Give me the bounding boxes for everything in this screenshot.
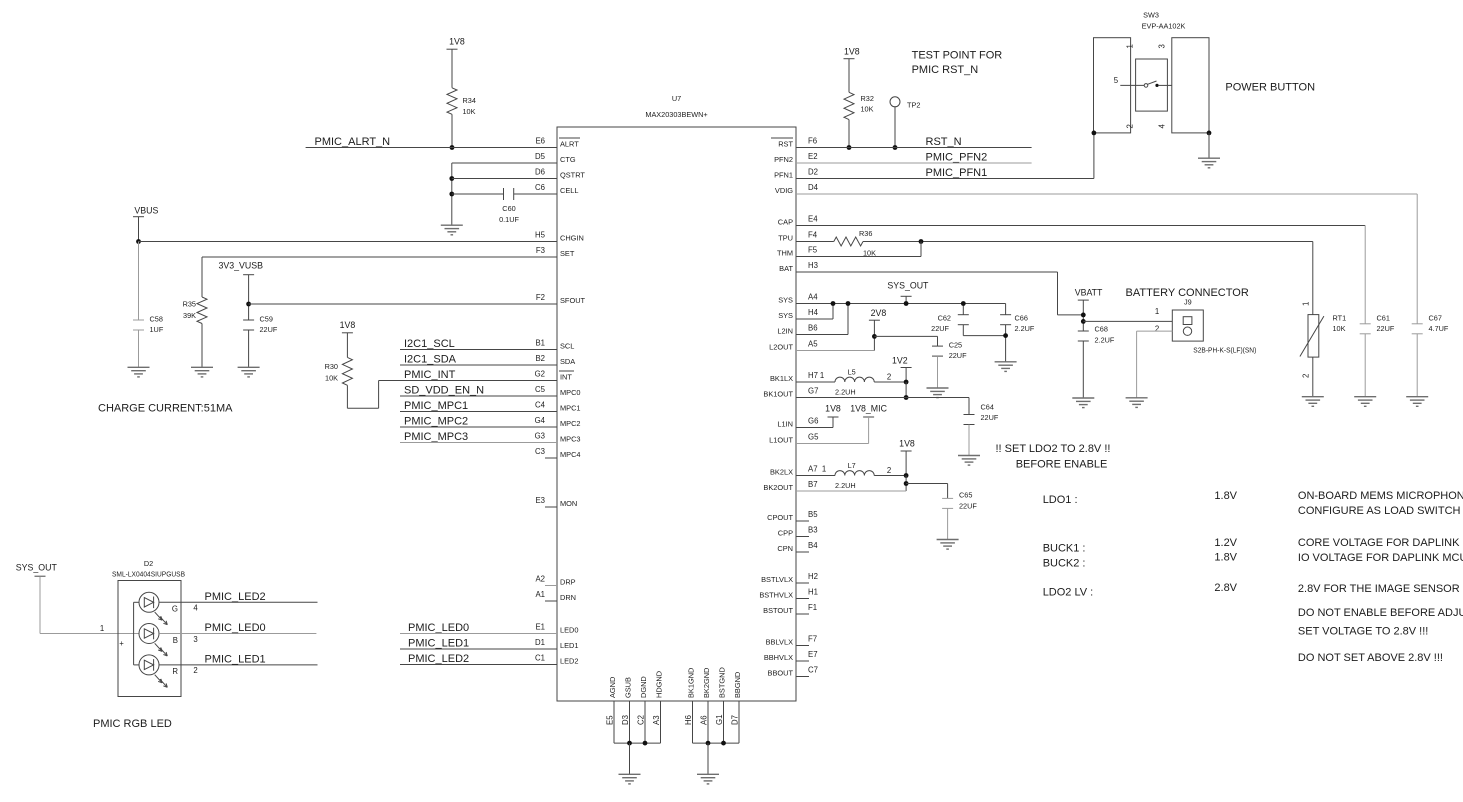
ground C67 — [1406, 397, 1428, 407]
ground CTG/QSTRT/CELL — [441, 225, 463, 235]
wire QSTRT pin D6 — [452, 178, 557, 180]
capacitor C25 22UF — [932, 341, 967, 361]
capacitor C60 0.1UF — [499, 188, 519, 224]
svg-text:A5: A5 — [808, 340, 818, 349]
svg-text:C6: C6 — [535, 183, 545, 192]
svg-text:B4: B4 — [808, 541, 818, 550]
svg-text:1: 1 — [1126, 44, 1135, 48]
svg-text:!! SET LDO2 TO 2.8V !!: !! SET LDO2 TO 2.8V !! — [996, 443, 1111, 455]
pin G2 INT (left) — [535, 370, 574, 382]
pin B5 CPOUT (right) — [767, 510, 818, 522]
ground C65 — [937, 540, 959, 550]
wire net RST_N pin F6 — [796, 147, 1032, 149]
ground C61 — [1354, 397, 1376, 407]
svg-text:BK1GND: BK1GND — [687, 668, 696, 698]
svg-text:C66: C66 — [1015, 314, 1028, 323]
svg-text:3V3_VUSB: 3V3_VUSB — [218, 261, 263, 271]
pin label R / 2 — [172, 666, 197, 676]
svg-text:H7: H7 — [808, 371, 818, 380]
svg-text:2: 2 — [887, 466, 891, 475]
pin F3 SET (left) — [536, 246, 575, 258]
svg-text:G3: G3 — [535, 432, 545, 441]
svg-text:C65: C65 — [959, 491, 972, 500]
switch SW3 EVP-AA102K power button — [1094, 11, 1210, 133]
svg-text:CHARGE CURRENT:51MA: CHARGE CURRENT:51MA — [98, 403, 233, 415]
svg-text:G5: G5 — [808, 433, 819, 442]
svg-text:C3: C3 — [535, 447, 545, 456]
svg-text:1V8: 1V8 — [449, 37, 465, 47]
svg-text:C58: C58 — [150, 315, 163, 324]
svg-text:4: 4 — [1158, 124, 1167, 129]
svg-text:PMIC_ALRT_N: PMIC_ALRT_N — [315, 136, 391, 148]
svg-text:2: 2 — [1155, 325, 1159, 334]
wire bottom AGND group bus — [614, 741, 661, 775]
wire BK2LX pin A7 to L7 — [796, 475, 835, 477]
svg-text:POWER BUTTON: POWER BUTTON — [1225, 82, 1315, 94]
pin D4 VDIG (right) — [775, 183, 819, 195]
svg-text:1V8: 1V8 — [899, 439, 915, 449]
svg-text:R: R — [172, 667, 178, 676]
svg-text:SET VOLTAGE TO 2.8V !!!: SET VOLTAGE TO 2.8V !!! — [1298, 626, 1428, 638]
svg-text:DRP: DRP — [560, 578, 576, 587]
node junction TP2/RST — [893, 145, 898, 150]
wire SFOUT net to pin F2 — [249, 303, 557, 305]
svg-text:E5: E5 — [606, 715, 615, 725]
capacitor C58 1UF — [133, 315, 164, 335]
svg-text:BSTGND: BSTGND — [718, 667, 727, 698]
svg-text:G6: G6 — [808, 417, 818, 426]
svg-text:C59: C59 — [260, 315, 273, 324]
capacitor C62 22UF — [931, 304, 969, 334]
resistor R36 10K — [834, 229, 876, 258]
capacitor C61 22UF — [1360, 314, 1395, 334]
svg-text:BBGND: BBGND — [733, 672, 742, 698]
wire C67 to ground — [1416, 334, 1418, 397]
wire VBATT down to C68 — [1082, 300, 1084, 331]
node junction SYS/SYS_OUT — [904, 301, 909, 306]
node junction SW3 pin2 — [1092, 131, 1097, 136]
svg-text:22UF: 22UF — [931, 324, 949, 333]
svg-text:2.2UF: 2.2UF — [1015, 324, 1035, 333]
node junction SYS/H4 — [831, 301, 836, 306]
node junction C65 tap — [904, 481, 909, 486]
wire L2OUT pin A5 to 2V8 — [796, 320, 874, 350]
svg-text:CPOUT: CPOUT — [767, 513, 793, 522]
svg-text:BK2OUT: BK2OUT — [763, 483, 793, 492]
IC U7 MAX20303BEWN+ body — [557, 94, 796, 701]
pin A7 BK2LX (right) — [770, 465, 818, 477]
wire net I2C1_SDA — [400, 364, 557, 366]
svg-text:B7: B7 — [808, 480, 818, 489]
ground J9 — [1126, 398, 1148, 408]
svg-text:10K: 10K — [1333, 324, 1346, 333]
svg-text:C1: C1 — [535, 654, 545, 663]
wire SYS_OUT to LED pin 1 — [40, 576, 140, 633]
svg-text:0.1UF: 0.1UF — [499, 215, 519, 224]
pin A5 L2OUT (right) — [769, 340, 818, 352]
wire 3V3_VUSB down — [248, 275, 250, 320]
pin B6 L2IN (right) — [777, 324, 817, 336]
wire R35 to ground — [201, 324, 203, 368]
pin D6 QSTRT (left) — [535, 168, 585, 180]
svg-text:BK2LX: BK2LX — [770, 468, 793, 477]
wire C59 to ground — [248, 330, 250, 367]
svg-text:PMIC_INT: PMIC_INT — [404, 369, 456, 381]
svg-text:F2: F2 — [536, 293, 545, 302]
wire R34 to ALRT net — [451, 114, 453, 147]
svg-text:C60: C60 — [502, 204, 515, 213]
text BUCK1 row — [1043, 537, 1463, 555]
wire 1V8 to R32 — [848, 59, 850, 93]
svg-text:A4: A4 — [808, 293, 818, 302]
wire net PMIC_PFN2 pin E2 — [796, 162, 1032, 164]
wire SW3 pin4 to ground — [1208, 133, 1210, 158]
pin B4 CPN (right) — [777, 541, 818, 553]
wire VBUS down — [138, 217, 140, 242]
svg-text:LDO2 LV :: LDO2 LV : — [1043, 587, 1094, 599]
svg-text:1: 1 — [820, 371, 824, 380]
power 1V8 (BK2) — [899, 439, 915, 476]
svg-text:C67: C67 — [1429, 314, 1442, 323]
svg-text:MPC3: MPC3 — [560, 435, 581, 444]
capacitor C67 4.7UF — [1412, 314, 1449, 334]
svg-text:B6: B6 — [808, 324, 818, 333]
pin E4 CAP (right) — [778, 215, 818, 227]
node junction R34/ALRT — [450, 145, 455, 150]
text TEST POINT FOR PMIC RST_N — [912, 49, 1003, 76]
svg-text:SML-LX0404SIUPGUSB: SML-LX0404SIUPGUSB — [112, 570, 185, 579]
svg-text:TPU: TPU — [778, 234, 793, 243]
wire RT1 to ground — [1312, 357, 1314, 397]
svg-text:C68: C68 — [1095, 325, 1108, 334]
svg-text:GSUB: GSUB — [624, 677, 633, 698]
wire net PMIC_INT — [379, 380, 557, 382]
svg-text:E4: E4 — [808, 215, 818, 224]
svg-text:SD_VDD_EN_N: SD_VDD_EN_N — [404, 385, 484, 397]
svg-text:VDIG: VDIG — [775, 186, 793, 195]
svg-text:QSTRT: QSTRT — [560, 171, 585, 180]
svg-text:F6: F6 — [808, 137, 817, 146]
svg-text:4: 4 — [193, 604, 198, 613]
svg-text:DO NOT SET ABOVE 2.8V !!!: DO NOT SET ABOVE 2.8V !!! — [1298, 652, 1443, 664]
svg-text:SCL: SCL — [560, 342, 574, 351]
pin G6 L1IN (right) — [777, 417, 818, 429]
svg-text:C25: C25 — [949, 341, 962, 350]
capacitor C59 22UF — [243, 315, 278, 335]
pin G3 MPC3 (left) — [535, 432, 581, 444]
ground C59 — [238, 367, 260, 377]
LED element red (pin 2 R) — [139, 655, 167, 687]
svg-text:BK1LX: BK1LX — [770, 374, 793, 383]
text SET LDO2 warning — [996, 443, 1111, 471]
wire LED G cathode to net PMIC_LED2 — [159, 601, 317, 603]
pin G7 BK1OUT (right) — [763, 387, 818, 399]
ground C58 — [128, 367, 150, 377]
thermistor RT1 10K — [1300, 242, 1346, 379]
pin F5 THM (right) — [777, 246, 818, 258]
svg-text:DGND: DGND — [639, 676, 648, 698]
svg-text:10K: 10K — [325, 374, 338, 383]
pin C4 MPC1 (left) — [535, 401, 581, 413]
resistor R35 39K — [183, 297, 207, 324]
svg-text:BUCK1 :: BUCK1 : — [1043, 543, 1086, 555]
svg-text:R32: R32 — [861, 94, 874, 103]
node junction VBATT/BAT — [1081, 313, 1086, 318]
node junction R32/RST — [847, 145, 852, 150]
svg-text:SYS: SYS — [778, 296, 793, 305]
power flag SYS_OUT (LED) — [16, 563, 58, 577]
wire BAT pin H3 to VBATT — [796, 272, 1083, 315]
svg-text:1.8V: 1.8V — [1214, 490, 1237, 502]
pin E6 ALRT (left) — [535, 137, 580, 149]
svg-text:F7: F7 — [808, 635, 817, 644]
node junction SYS/L2IN — [846, 301, 851, 306]
svg-text:D4: D4 — [808, 183, 819, 192]
svg-text:PMIC_LED1: PMIC_LED1 — [205, 654, 266, 666]
svg-text:PMIC_LED0: PMIC_LED0 — [205, 622, 266, 634]
power 2V8 — [869, 308, 886, 320]
svg-text:PMIC_MPC1: PMIC_MPC1 — [404, 400, 468, 412]
svg-text:VBATT: VBATT — [1075, 288, 1103, 298]
svg-text:PMIC_PFN2: PMIC_PFN2 — [926, 152, 988, 164]
svg-text:MON: MON — [560, 499, 577, 508]
wire VBATT to J9 pin 1 — [1083, 320, 1172, 322]
svg-text:AGND: AGND — [608, 677, 617, 698]
svg-text:E2: E2 — [808, 152, 818, 161]
wire net PMIC_ALRT_N to pin E6 — [306, 147, 557, 149]
svg-text:C2: C2 — [637, 715, 646, 725]
wire R36 to RT1 — [863, 241, 1313, 243]
wire net PMIC_MPC2 — [400, 426, 557, 428]
svg-text:L1OUT: L1OUT — [769, 436, 793, 445]
svg-text:B2: B2 — [535, 354, 545, 363]
svg-text:BK1OUT: BK1OUT — [763, 390, 793, 399]
svg-text:CORE VOLTAGE FOR DAPLINK MCU: CORE VOLTAGE FOR DAPLINK MCU — [1298, 537, 1463, 549]
svg-text:PMIC_LED2: PMIC_LED2 — [205, 591, 266, 603]
svg-text:SFOUT: SFOUT — [560, 296, 586, 305]
wire BK2LX to BK2OUT — [905, 476, 907, 492]
text LDO2 LV row — [1043, 582, 1460, 599]
svg-text:B3: B3 — [808, 526, 818, 535]
wire C64 to ground — [968, 425, 970, 456]
svg-text:PMIC_MPC3: PMIC_MPC3 — [404, 431, 468, 443]
svg-text:E3: E3 — [535, 496, 545, 505]
svg-text:THM: THM — [777, 249, 793, 258]
text LDO1 row — [1043, 490, 1463, 517]
svg-text:2: 2 — [1302, 374, 1311, 378]
wire L7 to 1V8 — [874, 475, 906, 477]
pin F2 SFOUT (left) — [536, 293, 586, 305]
svg-text:CTG: CTG — [560, 155, 576, 164]
wire VDIG net pin D4 to C67 — [796, 194, 1417, 324]
wire C62 bottom — [963, 325, 1005, 336]
svg-text:G7: G7 — [808, 387, 818, 396]
svg-text:2: 2 — [887, 373, 891, 382]
wire TP2 to RST net — [894, 107, 896, 148]
ground R35 — [191, 367, 213, 377]
wire BK1LX pin H7 to L5 — [796, 381, 835, 383]
wire net PMIC_MPC1 — [400, 411, 557, 413]
pin E2 PFN2 (right) — [774, 152, 817, 164]
svg-text:L2OUT: L2OUT — [769, 343, 793, 352]
svg-text:RT1: RT1 — [1333, 314, 1347, 323]
wire BK2OUT pin B7 — [796, 490, 906, 492]
svg-text:BEFORE ENABLE: BEFORE ENABLE — [1016, 459, 1108, 471]
node junction BK1LX/1V2 — [904, 380, 909, 385]
wire SYS net pin A4 — [796, 303, 1006, 305]
wire LED R cathode to net PMIC_LED1 — [159, 664, 317, 666]
svg-text:L2IN: L2IN — [777, 327, 793, 336]
svg-text:CONFIGURE AS LOAD SWITCH: CONFIGURE AS LOAD SWITCH — [1298, 505, 1461, 517]
node junction SYS/C62 — [961, 301, 966, 306]
svg-text:D2: D2 — [808, 168, 818, 177]
power 1V8_MIC — [850, 404, 887, 418]
svg-text:D6: D6 — [535, 168, 545, 177]
svg-text:ON-BOARD MEMS MICROPHONE: ON-BOARD MEMS MICROPHONE — [1298, 490, 1463, 502]
text BUCK2 row — [1043, 552, 1463, 570]
ground C25 — [927, 388, 949, 398]
node junction CELL — [449, 192, 454, 197]
power 1V8 (L1IN) — [825, 404, 841, 418]
svg-text:D5: D5 — [535, 152, 546, 161]
pin A3 HDGND (bottom) — [652, 671, 664, 743]
svg-text:PMIC_LED1: PMIC_LED1 — [408, 638, 469, 650]
svg-text:PFN1: PFN1 — [774, 171, 793, 180]
node junction BK2LX/1V8 — [904, 473, 909, 478]
svg-text:C62: C62 — [938, 314, 951, 323]
svg-text:PMIC RGB LED: PMIC RGB LED — [93, 718, 172, 730]
svg-text:BSTLVLX: BSTLVLX — [761, 575, 793, 584]
svg-text:MAX20303BEWN+: MAX20303BEWN+ — [645, 110, 707, 119]
pin A6 BK2GND (bottom) — [700, 668, 712, 744]
wire LED anode bus — [134, 602, 140, 665]
svg-text:PFN2: PFN2 — [774, 155, 793, 164]
svg-text:G2: G2 — [535, 370, 545, 379]
svg-text:1UF: 1UF — [150, 325, 164, 334]
pin H2 BSTLVLX (right) — [761, 572, 818, 584]
pin E5 AGND (bottom) — [606, 677, 618, 743]
svg-text:F3: F3 — [536, 246, 545, 255]
wire C61 to ground — [1364, 334, 1366, 397]
power 1V8 (above R30) — [340, 320, 356, 333]
svg-text:LDO1 :: LDO1 : — [1043, 494, 1078, 506]
svg-text:2V8: 2V8 — [871, 308, 887, 318]
pin H6 BK1GND (bottom) — [684, 668, 696, 744]
wire R30 to INT net — [347, 381, 378, 409]
svg-text:LED1: LED1 — [560, 641, 579, 650]
svg-text:2.2UF: 2.2UF — [1095, 336, 1115, 345]
wire CTG pin D5 — [452, 163, 557, 225]
svg-text:MPC0: MPC0 — [560, 388, 581, 397]
svg-text:H5: H5 — [535, 231, 546, 240]
pin H7 BK1LX (right) — [770, 371, 818, 383]
svg-text:R35: R35 — [183, 300, 196, 309]
svg-text:1V8: 1V8 — [340, 320, 356, 330]
svg-text:CELL: CELL — [560, 186, 579, 195]
pin C5 MPC0 (left) — [535, 385, 581, 397]
text DO NOT ENABLE warning — [1298, 607, 1463, 638]
svg-text:1V8: 1V8 — [844, 47, 860, 57]
svg-text:H2: H2 — [808, 572, 818, 581]
wire L5 to 1V2 — [874, 381, 906, 383]
wire R32 to RST net — [848, 120, 850, 148]
svg-text:A6: A6 — [700, 715, 709, 725]
svg-text:ALRT: ALRT — [560, 140, 579, 149]
ground C64 — [958, 456, 980, 466]
inductor L5 2.2UH — [820, 368, 891, 397]
svg-text:L7: L7 — [848, 461, 856, 470]
svg-text:VBUS: VBUS — [134, 206, 158, 216]
pin C1 LED2 (left) — [535, 654, 578, 666]
wire SYS pin H4 joins — [796, 304, 833, 320]
test point TP2 — [890, 97, 920, 110]
wire CELL to C60 — [452, 193, 504, 195]
svg-text:TP2: TP2 — [907, 101, 920, 110]
power VBUS — [133, 206, 159, 217]
svg-text:HDGND: HDGND — [655, 671, 664, 698]
svg-text:1V8_MIC: 1V8_MIC — [850, 404, 887, 414]
ground RT1 — [1302, 397, 1324, 407]
ground C62/C66 — [995, 362, 1017, 372]
svg-text:EVP-AA102K: EVP-AA102K — [1142, 22, 1186, 31]
svg-text:D7: D7 — [731, 715, 740, 725]
svg-text:BSTOUT: BSTOUT — [763, 606, 793, 615]
svg-text:F1: F1 — [808, 603, 817, 612]
pin E1 LED0 (left) — [535, 623, 578, 635]
pin A4 SYS (right) — [778, 293, 818, 305]
svg-text:+: + — [119, 639, 124, 648]
wire CHGIN net to pin H5 — [139, 241, 558, 243]
power 3V3_VUSB — [218, 261, 263, 275]
wire net PMIC_PFN1 pin D2 — [796, 133, 1094, 179]
wire C68 to ground — [1082, 341, 1084, 398]
svg-text:C5: C5 — [535, 385, 546, 394]
node junction SFOUT/3V3_VUSB — [246, 302, 251, 307]
node junction BK1OUT — [904, 395, 909, 400]
svg-text:1V8: 1V8 — [825, 404, 841, 414]
resistor R30 10K — [325, 357, 353, 385]
wire 1V8 to R34 — [451, 49, 453, 88]
pin A1 DRN (left) — [535, 590, 576, 602]
svg-text:1V2: 1V2 — [892, 356, 908, 366]
svg-text:1: 1 — [1155, 307, 1159, 316]
ground SW3 — [1198, 158, 1220, 168]
svg-text:2: 2 — [193, 666, 197, 675]
wire J9 pin 2 to ground — [1137, 331, 1173, 398]
wire VBUS to C58 — [138, 242, 140, 321]
svg-text:1: 1 — [1302, 302, 1311, 306]
wire net PMIC_LED1 to pin D1 — [400, 648, 557, 650]
svg-text:SW3: SW3 — [1143, 11, 1159, 20]
capacitor C64 22UF — [964, 403, 999, 425]
svg-text:U7: U7 — [672, 94, 681, 103]
pin F6 RST (right) — [771, 137, 817, 149]
wire CAP net pin E4 to C61 — [796, 226, 1365, 324]
svg-text:3: 3 — [1158, 44, 1167, 48]
ground BK1GND group — [697, 774, 719, 784]
pin H1 BSTHVLX (right) — [759, 588, 818, 600]
svg-text:SDA: SDA — [560, 357, 575, 366]
wire L2IN pin B6 joins — [796, 304, 848, 335]
svg-text:H1: H1 — [808, 588, 818, 597]
svg-text:10K: 10K — [463, 107, 476, 116]
svg-text:B: B — [173, 636, 178, 645]
pin E7 BBHVLX (right) — [764, 650, 818, 662]
power 1V2 — [892, 356, 912, 383]
svg-text:2: 2 — [1126, 124, 1135, 128]
power flag SYS_OUT (SYS rail) — [887, 281, 929, 304]
wire bottom BK1GND group bus — [693, 741, 740, 775]
